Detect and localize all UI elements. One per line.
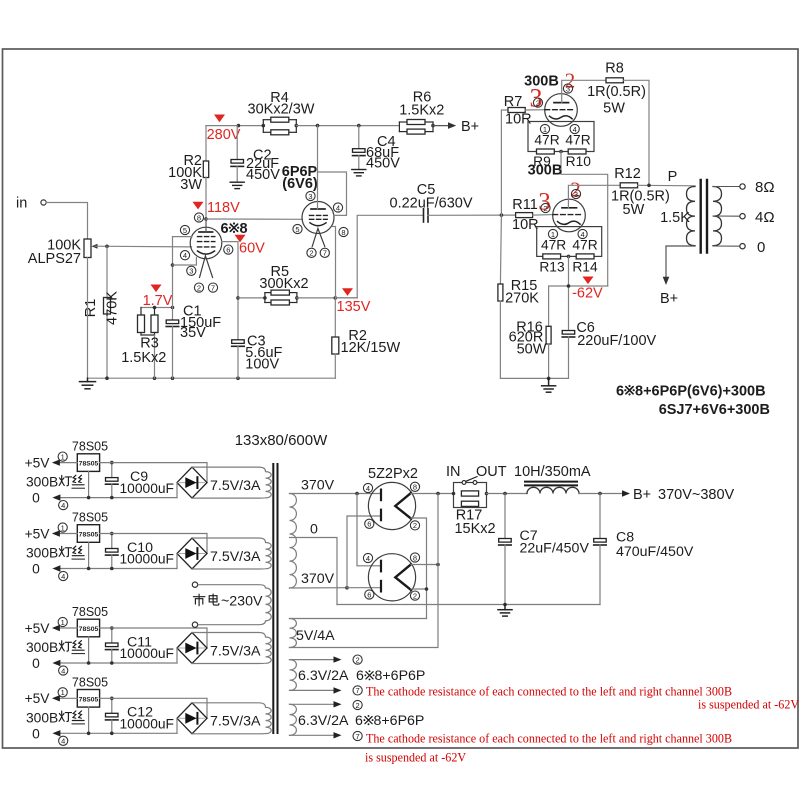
capacitor C3 5.6uF/100V: [232, 340, 245, 344]
wire plate lead from B+ rail: [317, 126, 319, 209]
svg-text:is suspended at -62V: is suspended at -62V: [365, 751, 466, 765]
wire cathode no.2 down: [568, 256, 570, 330]
pin 2 label: [194, 283, 203, 292]
svg-text:8: 8: [341, 228, 345, 237]
B+ arrow top: [433, 125, 451, 127]
pin 2 label: [307, 248, 316, 257]
svg-text:C12: C12: [127, 705, 153, 721]
svg-text:~230V: ~230V: [221, 593, 263, 609]
wire filament pin2 upper: [411, 518, 427, 619]
svg-text:15Kx2: 15Kx2: [454, 521, 495, 537]
wire plate lead: [205, 219, 207, 232]
pin 2 label: [410, 521, 419, 530]
wire cathode no.1 to -62V rail: [561, 152, 608, 287]
svg-text:6: 6: [221, 221, 229, 237]
pin 3 label: [563, 84, 572, 93]
resistor R16 620R 50W: [548, 286, 550, 326]
winding 6.3V/2A no.2: [290, 704, 297, 735]
svg-text:370V~380V: 370V~380V: [658, 487, 735, 503]
ground symbol left rail: [80, 378, 96, 389]
pin 4 label: [578, 229, 587, 238]
resistor R12 1R(0.5R) 5W: [620, 183, 637, 188]
pin 2 label: [541, 203, 550, 212]
300B no.1 filament: [550, 116, 573, 119]
resistor R8 1R(0.5R) 5W: [606, 78, 623, 83]
mains terminal upper: [192, 582, 197, 587]
svg-text:300B: 300B: [528, 163, 563, 179]
svg-text:133x80/600W: 133x80/600W: [235, 432, 328, 449]
svg-text:470K: 470K: [105, 291, 121, 325]
svg-text:5: 5: [295, 225, 299, 234]
svg-text:1.5K: 1.5K: [660, 210, 690, 226]
svg-text:R8: R8: [605, 61, 624, 77]
wire cathode pin3 lead: [173, 258, 197, 266]
svg-text:47R: 47R: [534, 132, 559, 147]
svg-text:5W: 5W: [603, 101, 625, 117]
svg-text:2: 2: [309, 249, 313, 258]
wire mains lower: [198, 624, 259, 626]
ground under C4: [352, 170, 366, 176]
svg-text:6.3V/2A: 6.3V/2A: [298, 668, 349, 684]
ground under C2: [230, 182, 244, 188]
-62V rail: [549, 285, 608, 287]
svg-text:The cathode resistance of each: The cathode resistance of each connected…: [366, 731, 732, 745]
svg-text:8: 8: [197, 213, 201, 222]
svg-text:30Kx2/3W: 30Kx2/3W: [248, 102, 315, 118]
wire C5 branch from 135V node: [335, 215, 423, 298]
pin 3 label: [571, 189, 580, 198]
svg-text:50W: 50W: [517, 342, 547, 358]
transformer core: [700, 180, 702, 253]
node 6P6P plate tap: [316, 124, 320, 128]
svg-text:4: 4: [366, 484, 370, 493]
svg-text:47R: 47R: [541, 237, 566, 252]
transformer core: [272, 463, 274, 734]
rectifier tube 5Z2P lower: [368, 554, 415, 601]
6x8 grids (dashed): [198, 237, 215, 247]
6P6P cathode: [310, 223, 326, 226]
wire 6x8 plate to 6P6P grid: [206, 218, 303, 220]
svg-text:R13: R13: [539, 260, 565, 275]
voltage marker 1.7V: [151, 285, 162, 293]
wire filament rail to 5V winding bottom: [290, 494, 439, 648]
wire pot bottom to ground rail: [87, 258, 89, 379]
voltage marker 118V: [193, 202, 204, 210]
svg-text:8+6P6P: 8+6P6P: [374, 713, 425, 729]
capacitor C5 0.22uF/630V: [423, 209, 425, 222]
resistor R2 100K 3W: [205, 126, 207, 161]
svg-text:7: 7: [356, 732, 360, 741]
svg-text:C10: C10: [127, 540, 153, 556]
300B no.2 grid (dashed): [553, 214, 582, 216]
svg-text:12K/15W: 12K/15W: [341, 340, 401, 356]
300B no.2 plate: [562, 207, 577, 209]
wire filament lower pin8: [411, 564, 438, 566]
wire filament output upper: [411, 493, 454, 495]
pin 4 label: [180, 251, 189, 260]
choke 10H/350mA: [525, 481, 577, 483]
pin 8 label: [410, 482, 419, 491]
svg-text:2: 2: [356, 701, 360, 710]
pin 7 label: [353, 686, 362, 695]
svg-text:0.22uF/630V: 0.22uF/630V: [390, 196, 473, 212]
filament box no.1 with R9 R10: [528, 122, 594, 152]
svg-text:135V: 135V: [337, 299, 371, 315]
voltage marker -62V: [583, 277, 594, 285]
6x8 filament: [200, 256, 213, 278]
svg-text:450V: 450V: [246, 167, 280, 183]
pin 2 label: [533, 98, 542, 107]
wire plate no.1 to R8: [562, 80, 606, 102]
svg-text:The cathode resistance of each: The cathode resistance of each connected…: [366, 684, 732, 698]
svg-text:370V: 370V: [301, 571, 335, 587]
svg-text:B+: B+: [660, 291, 678, 307]
svg-text:C9: C9: [130, 469, 148, 485]
pin 3 label: [187, 266, 196, 275]
svg-text:B+: B+: [633, 487, 651, 503]
svg-text:0: 0: [310, 522, 318, 538]
wire 370V top tap to rectifier plate: [290, 493, 382, 495]
svg-text:5V/4A: 5V/4A: [296, 628, 335, 644]
pin 8 label: [410, 553, 419, 562]
capacitor C8 470uF/450V: [599, 494, 601, 539]
svg-text:60V: 60V: [239, 241, 265, 257]
6x8 plate: [199, 231, 213, 233]
capacitor C1 150uF/35V: [172, 308, 174, 321]
wire B+ rail from R2 top to R4: [206, 125, 263, 127]
svg-text:6: 6: [355, 713, 363, 729]
wire secondary 0 tap: [713, 245, 740, 247]
pin 2 label: [353, 655, 362, 664]
pin 7 label: [353, 731, 362, 740]
wire R17 to choke: [487, 493, 528, 495]
screen grid jog pin4 to plate: [318, 172, 347, 215]
svg-text:3: 3: [574, 190, 578, 199]
PSU block 2: 78S05 + C10 + bridge + 7.5V/3A winding: [25, 511, 272, 581]
wire cathode network top (R3/C1): [141, 307, 173, 309]
pin 6 label: [365, 519, 374, 528]
pin 6 label: [365, 590, 374, 599]
wire primary bottom to B+ arrow: [666, 246, 695, 279]
wire 370V bottom tap: [290, 587, 348, 589]
capacitor C2 22uF/450V: [236, 126, 238, 160]
wire grid pin5: [173, 236, 193, 238]
wire cathode pin8 down to 135V node: [333, 227, 336, 298]
svg-text:6SJ7+6V6+300B: 6SJ7+6V6+300B: [659, 402, 770, 418]
svg-text:3: 3: [566, 84, 570, 93]
svg-text:-62V: -62V: [572, 286, 603, 302]
svg-text:1.5Kx2: 1.5Kx2: [399, 103, 444, 119]
resistor R6 (1.5Kx2 parallel pair): [398, 122, 400, 132]
svg-text:47R: 47R: [565, 132, 590, 147]
PSU block 3: 78S05 + C11 + bridge + 7.5V/3A winding: [25, 605, 272, 675]
svg-text:47R: 47R: [572, 237, 597, 252]
svg-text:R1: R1: [83, 299, 99, 318]
wire pin6 to 60V line: [222, 242, 239, 340]
svg-text:270K: 270K: [505, 291, 539, 307]
svg-text:B+: B+: [461, 119, 479, 135]
svg-text:R7: R7: [504, 94, 523, 110]
svg-text:OUT: OUT: [476, 464, 507, 480]
svg-text:8: 8: [413, 483, 417, 492]
wire mains upper: [198, 584, 259, 586]
wire in to pot: [46, 203, 87, 240]
capacitor C4 68uF/450V: [357, 124, 361, 128]
svg-text:8: 8: [413, 553, 417, 562]
svg-text:2: 2: [197, 283, 201, 292]
pin 3 label: [306, 191, 315, 200]
ground under R16: [542, 378, 556, 392]
svg-text:118V: 118V: [207, 200, 240, 216]
output transformer secondary winding: [713, 187, 722, 246]
svg-text:2: 2: [413, 521, 417, 530]
svg-text:R10: R10: [566, 154, 592, 169]
winding 5V/4A: [290, 619, 297, 648]
voltage marker 280V: [214, 115, 225, 123]
300B no.1 grid (dashed): [545, 109, 574, 111]
resistor R7 10R: [501, 110, 508, 215]
svg-text:is suspended at -62V: is suspended at -62V: [698, 698, 799, 712]
svg-text:P: P: [668, 169, 678, 185]
switch IN/OUT with R17 box: [454, 483, 487, 508]
svg-text:7: 7: [356, 686, 360, 695]
svg-text:8+6P6P(6V6)+300B: 8+6P6P(6V6)+300B: [635, 384, 766, 400]
svg-text:3W: 3W: [180, 177, 202, 193]
pin 4 label: [570, 124, 579, 133]
svg-text:8+6P6P: 8+6P6P: [375, 668, 426, 684]
bottom return rail: [337, 604, 600, 606]
svg-text:3: 3: [189, 267, 193, 276]
tube 300B no.1 envelope: [545, 94, 578, 127]
tube 6x8 envelope: [190, 227, 222, 259]
rectifier tube 5Z2P upper: [368, 482, 415, 529]
svg-text:8: 8: [240, 221, 248, 237]
svg-text:22uF/450V: 22uF/450V: [520, 541, 590, 557]
pin 8 label: [194, 213, 203, 222]
wire filament pin2 lower: [411, 588, 427, 590]
PSU block 4: 78S05 + C12 + bridge + 7.5V/3A winding: [25, 675, 272, 745]
capacitor C7 22uF/450V: [504, 494, 506, 539]
svg-text:6: 6: [356, 668, 364, 684]
svg-text:C11: C11: [127, 635, 152, 651]
svg-text:5Z2Px2: 5Z2Px2: [368, 466, 418, 482]
capacitor C6 220uF/100V: [562, 331, 575, 335]
winding 6.3V/2A no.1: [290, 660, 297, 691]
pin 7 label: [208, 283, 217, 292]
pin 2 label: [353, 700, 362, 709]
svg-text:7: 7: [323, 249, 327, 258]
svg-text:4Ω: 4Ω: [755, 209, 775, 226]
svg-text:370V: 370V: [301, 478, 335, 494]
svg-text:10R: 10R: [512, 217, 539, 233]
pin 4 label: [333, 203, 342, 212]
svg-text:6: 6: [367, 520, 371, 529]
pin 4 label: [363, 553, 372, 562]
wire R4 to C4: [296, 125, 399, 127]
HV secondary winding 370-0-370: [290, 494, 297, 589]
wire pin5 to cathode node: [172, 237, 174, 308]
resistor R5 (300Kx2 parallel pair): [238, 297, 265, 299]
pin 2 label: [410, 591, 419, 600]
tube 6P6P envelope: [302, 202, 334, 234]
bottom rail -62V network: [500, 377, 568, 379]
svg-text:5W: 5W: [623, 202, 645, 218]
6P6P filament: [312, 229, 325, 247]
svg-text:35V: 35V: [180, 325, 206, 341]
6x8 cathode: [198, 251, 215, 254]
resistor R3 (1.5Kx2 parallel pair vertical): [140, 308, 142, 316]
6P6P grids (dashed): [310, 215, 328, 219]
mains terminal lower: [192, 622, 197, 627]
svg-text:R14: R14: [572, 260, 598, 275]
svg-text:4: 4: [366, 554, 370, 563]
pin 5 label: [180, 225, 189, 234]
300B no.1 plate: [554, 102, 569, 104]
svg-text:ALPS27: ALPS27: [28, 251, 81, 267]
pin 7 label: [320, 248, 329, 257]
svg-text:10H/350mA: 10H/350mA: [514, 464, 591, 480]
pin 1 label: [540, 124, 549, 133]
mains winding 230V: [259, 585, 271, 625]
pin 6 label: [224, 245, 233, 254]
pin 1 label: [548, 229, 557, 238]
svg-text:6: 6: [367, 590, 371, 599]
resistor R1 470K: [106, 246, 108, 297]
svg-text:IN: IN: [446, 464, 461, 480]
wire secondary 8ohm tap: [713, 186, 740, 188]
svg-text:100V: 100V: [245, 357, 279, 373]
svg-text:2: 2: [536, 98, 540, 107]
svg-text:2: 2: [413, 591, 417, 600]
svg-text:3: 3: [308, 192, 312, 201]
svg-text:R11: R11: [512, 197, 538, 213]
resistor R11 10R: [516, 213, 533, 218]
ground under C7: [498, 605, 512, 617]
filament box no.2 with R13 R14: [537, 227, 602, 257]
svg-text:1R(0.5R): 1R(0.5R): [587, 84, 646, 100]
wire upper rectifier lower plate to bottom tap: [347, 516, 381, 588]
svg-text:6: 6: [616, 384, 624, 400]
svg-text:4: 4: [336, 203, 340, 212]
svg-text:1.7V: 1.7V: [143, 293, 173, 309]
svg-text:0: 0: [757, 239, 765, 256]
wire choke to B+: [579, 493, 624, 495]
6P6P plate: [311, 208, 325, 210]
wire to lower rectifier plate: [357, 494, 381, 566]
svg-text:8Ω: 8Ω: [755, 179, 775, 196]
wire secondary 4ohm tap: [713, 215, 740, 217]
svg-text:R12: R12: [614, 166, 641, 182]
wire R5 to 135V node: [297, 297, 357, 299]
svg-text:220uF/100V: 220uF/100V: [577, 333, 656, 349]
svg-text:7: 7: [211, 283, 215, 292]
resistor R4 (30Kx2/3W parallel pair): [262, 120, 264, 133]
resistor R2 12K/15W: [334, 298, 336, 337]
svg-text:2: 2: [356, 655, 360, 664]
pin 8 label: [339, 227, 348, 236]
svg-text:2: 2: [543, 204, 547, 213]
wire plate no.2 to R12: [568, 185, 620, 208]
PSU block 1: 78S05 + C9 + bridge + 7.5V/3A winding: [25, 440, 272, 510]
svg-text:280V: 280V: [207, 127, 241, 143]
svg-text:300Kx2: 300Kx2: [259, 276, 308, 292]
svg-text:5: 5: [183, 226, 187, 235]
voltage marker 60V: [235, 235, 246, 243]
svg-text:470uF/450V: 470uF/450V: [616, 544, 694, 560]
pin 5 label: [293, 224, 302, 233]
svg-text:6: 6: [226, 245, 230, 254]
300B no.2 filament: [558, 221, 581, 224]
voltage marker 135V: [342, 288, 353, 296]
wire pin2 rail to 5V winding top: [290, 618, 427, 620]
node C2 tap: [237, 124, 241, 128]
svg-text:4: 4: [183, 251, 187, 260]
wire pot wiper to 6x8 grid: [95, 245, 192, 248]
pin 4 label: [363, 483, 372, 492]
svg-text:in: in: [16, 196, 27, 212]
svg-text:450V: 450V: [366, 156, 400, 172]
wire 0 center tap: [290, 538, 338, 605]
svg-text:1.5Kx2: 1.5Kx2: [121, 350, 166, 366]
svg-text:6.3V/2A: 6.3V/2A: [298, 713, 349, 729]
wire C5 to 300B grid node: [428, 214, 516, 216]
svg-text:(6V6): (6V6): [282, 176, 318, 192]
ground rail bottom left: [88, 377, 336, 379]
tube 300B no.2 envelope: [553, 199, 586, 232]
resistor R15 270K: [500, 215, 501, 284]
potentiometer 100K ALPS27: [84, 239, 91, 258]
output transformer primary winding 1.5K: [687, 187, 696, 246]
